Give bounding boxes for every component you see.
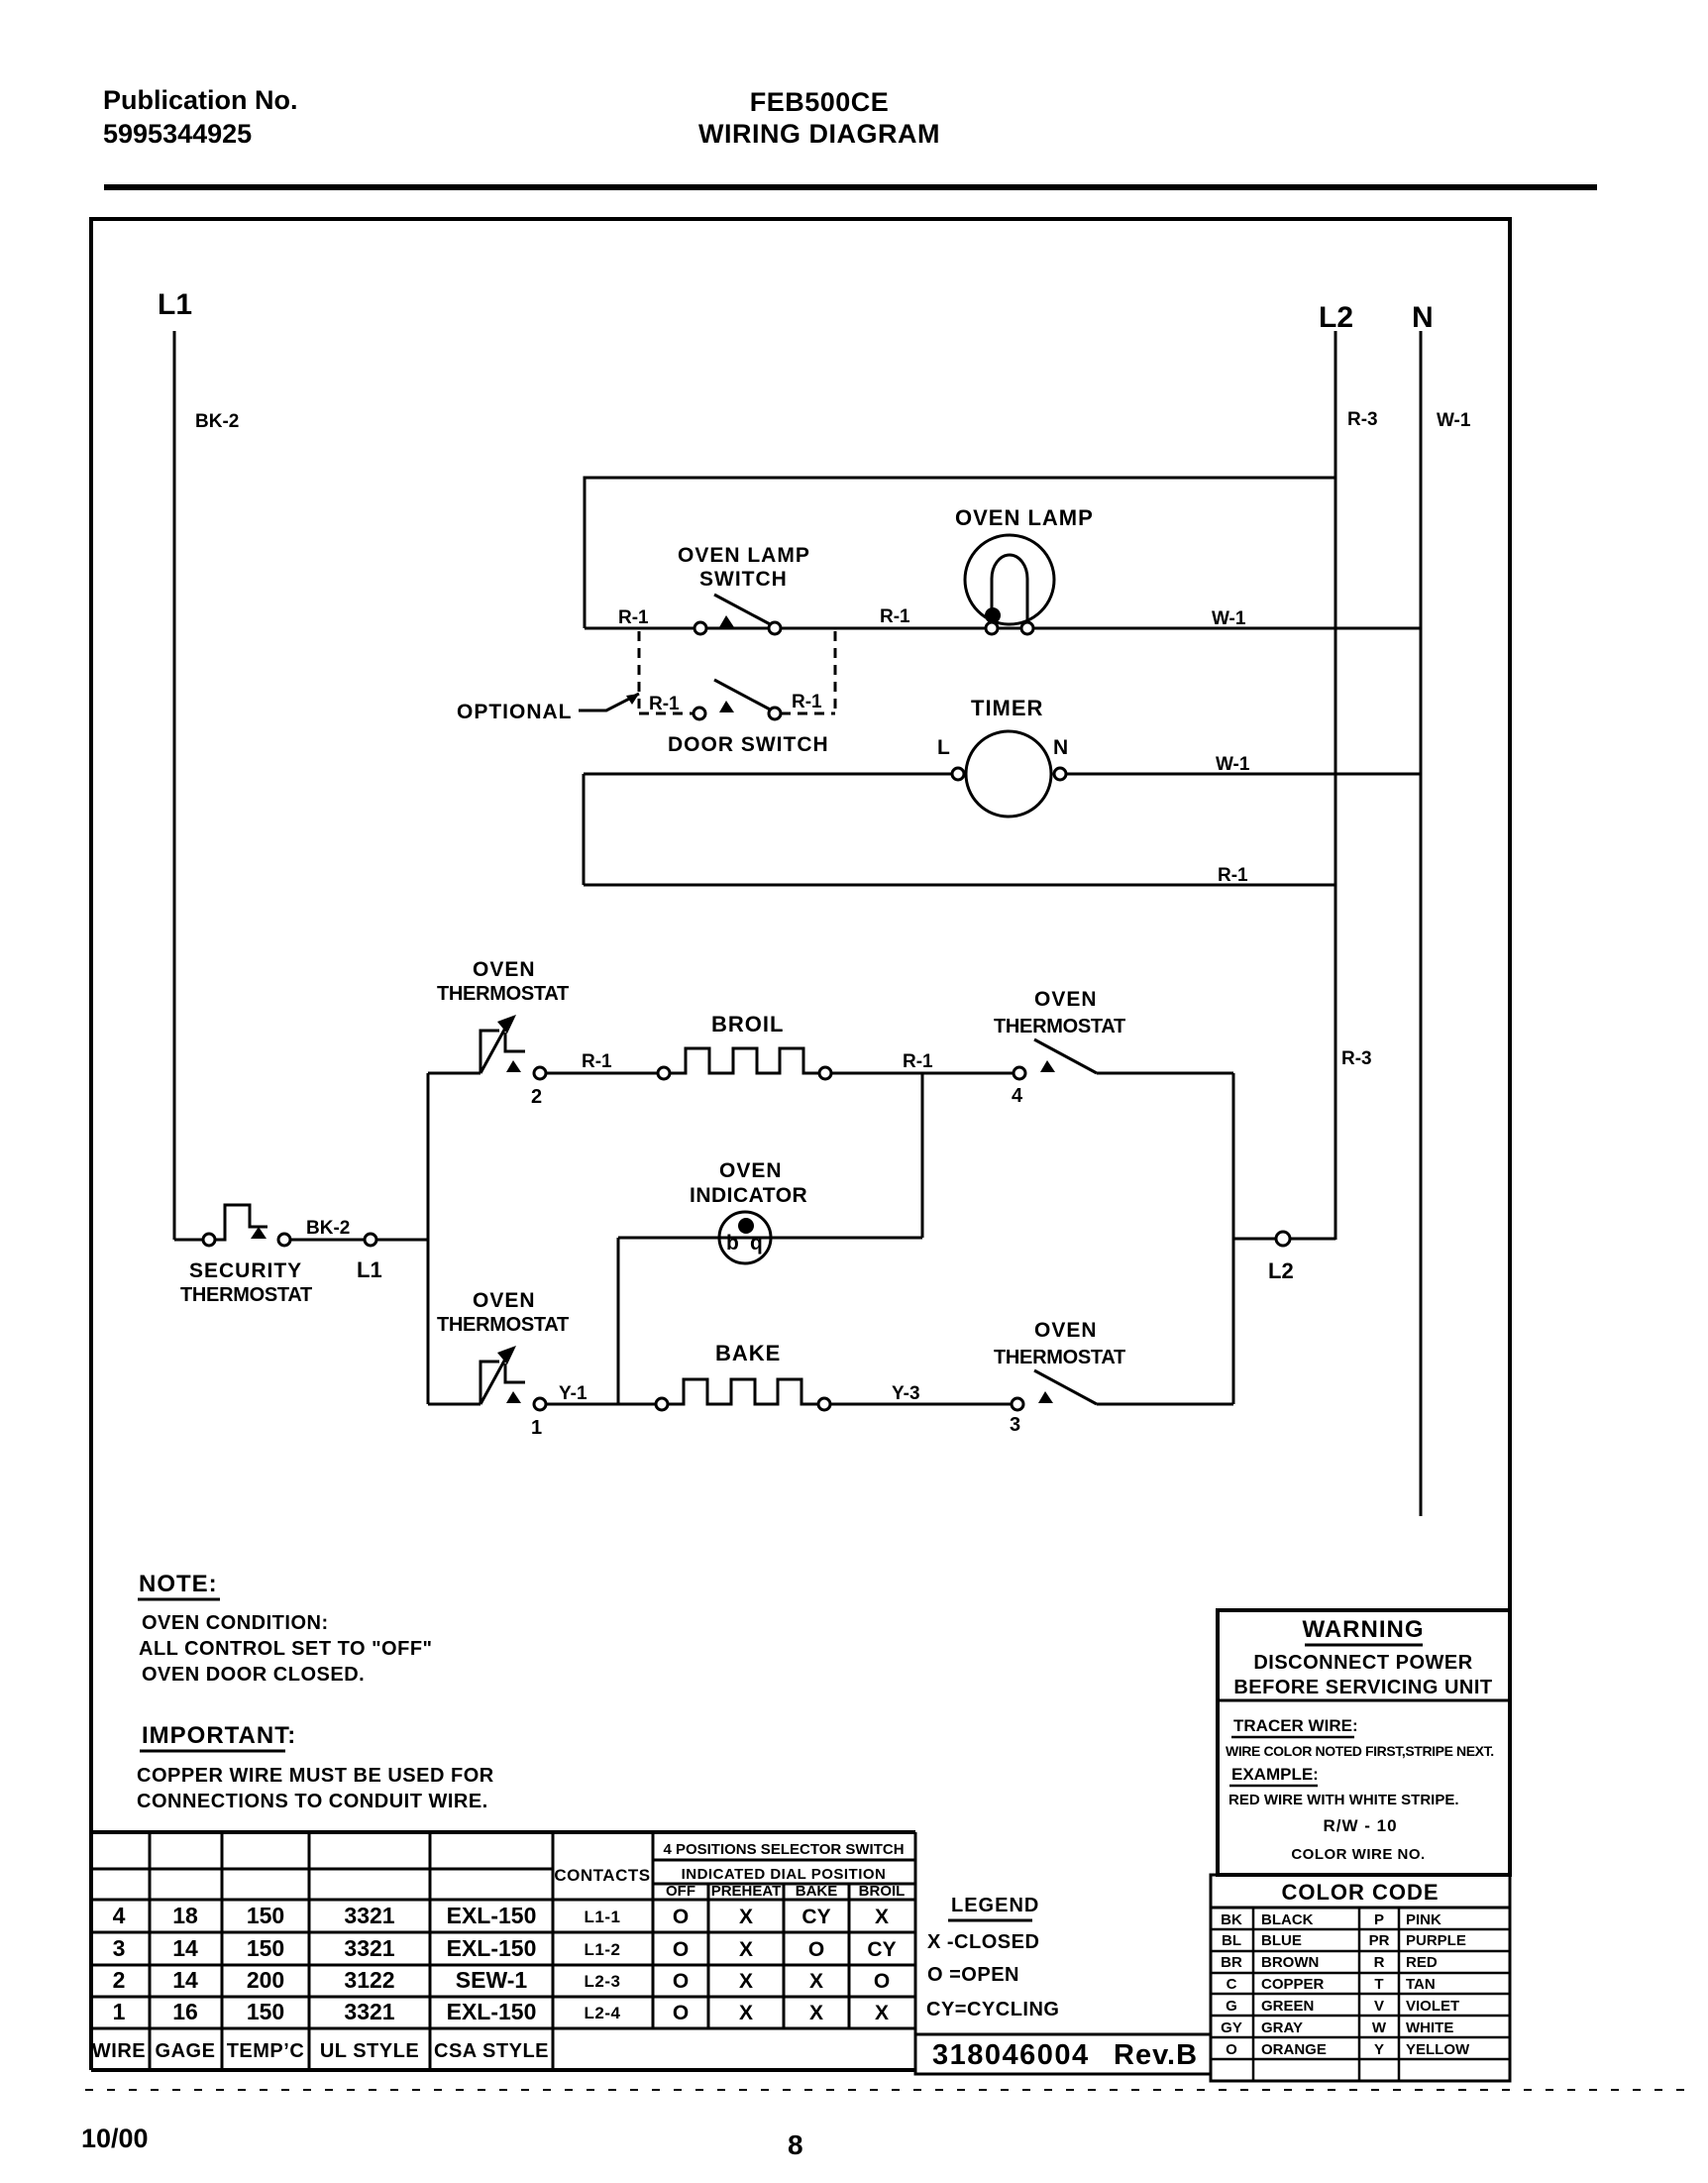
svg-text:L1: L1: [357, 1257, 382, 1282]
legend: [926, 1895, 1059, 2020]
bake element terminal right: [818, 1398, 830, 1410]
wire oven lamp row: [585, 627, 1421, 630]
svg-text:X: X: [809, 2002, 823, 2024]
important text: [137, 1765, 494, 1812]
svg-text:LEGEND: LEGEND: [951, 1895, 1039, 1916]
svg-text:COLOR CODE: COLOR CODE: [1281, 1880, 1439, 1905]
svg-text:3122: 3122: [344, 1967, 394, 1993]
svg-text:WIRE: WIRE: [92, 2040, 146, 2062]
svg-text:N: N: [1412, 301, 1434, 334]
footer dashed rule: [85, 2089, 1694, 2091]
svg-text:O: O: [808, 1938, 824, 1961]
wire thermostat 2 to broil: [546, 1072, 658, 1075]
wire timer loop bottom to L2: [584, 884, 1335, 887]
wire output bus (right): [1232, 1073, 1235, 1404]
svg-text:BROIL: BROIL: [859, 1883, 906, 1900]
svg-text:CONNECTIONS TO CONDUIT WIRE.: CONNECTIONS TO CONDUIT WIRE.: [137, 1791, 488, 1812]
table row wire 3: [113, 1935, 897, 1961]
svg-text:R-1: R-1: [792, 692, 822, 712]
svg-text:SECURITY: SECURITY: [189, 1259, 302, 1282]
wire L1 to security thermostat: [174, 1239, 203, 1242]
svg-text:BR: BR: [1221, 1954, 1242, 1971]
svg-text:14: 14: [172, 1935, 198, 1961]
oven thermostat 1 label: [437, 1289, 569, 1336]
svg-text:3: 3: [1010, 1414, 1020, 1436]
svg-text:W-1: W-1: [1437, 410, 1471, 431]
oven lamp: [965, 535, 1054, 634]
wire indicator row: [618, 1237, 922, 1240]
wire indicator to bake row: [617, 1238, 620, 1404]
svg-text:EXAMPLE:: EXAMPLE:: [1231, 1765, 1319, 1784]
svg-text:INDICATOR: INDICATOR: [690, 1184, 807, 1207]
wire L1 rail: [173, 331, 176, 1240]
svg-text:R-3: R-3: [1347, 409, 1378, 430]
svg-text:GREEN: GREEN: [1261, 1998, 1314, 2015]
svg-text:q: q: [750, 1232, 763, 1255]
optional label with leader: [457, 694, 639, 723]
svg-text:ORANGE: ORANGE: [1261, 2041, 1327, 2058]
diagram border frame: [91, 219, 1510, 2070]
part number box: [915, 2034, 1211, 2074]
svg-text:8: 8: [788, 2129, 803, 2160]
svg-text:R-1: R-1: [618, 607, 649, 628]
wire output bus to L2: [1233, 1238, 1335, 1241]
svg-text:X: X: [809, 1970, 823, 1993]
svg-text:X -CLOSED: X -CLOSED: [927, 1931, 1039, 1953]
wire node L1 to thermostat bus: [376, 1239, 428, 1242]
svg-text:L1-2: L1-2: [585, 1940, 621, 1959]
table column labels: [92, 2040, 549, 2062]
svg-text:CONTACTS: CONTACTS: [554, 1866, 650, 1885]
svg-text:BROWN: BROWN: [1261, 1954, 1319, 1971]
svg-text:TAN: TAN: [1406, 1976, 1436, 1993]
svg-text:C: C: [1227, 1976, 1237, 1993]
svg-text:4: 4: [113, 1903, 126, 1928]
svg-text:PREHEAT: PREHEAT: [711, 1883, 782, 1900]
svg-text:1: 1: [531, 1417, 542, 1439]
wire gauge and contacts table: [91, 1832, 915, 2070]
note text: [139, 1612, 433, 1686]
svg-text:SEW-1: SEW-1: [456, 1967, 528, 1993]
svg-text:THERMOSTAT: THERMOSTAT: [437, 1314, 569, 1336]
svg-text:ALL CONTROL SET TO "OFF": ALL CONTROL SET TO "OFF": [139, 1638, 433, 1660]
svg-text:150: 150: [247, 1999, 284, 2024]
svg-text:THERMOSTAT: THERMOSTAT: [437, 983, 569, 1005]
svg-text:EXL-150: EXL-150: [447, 1999, 537, 2024]
svg-text:318046004: 318046004: [932, 2039, 1090, 2071]
tracer wire heading: [1231, 1716, 1358, 1737]
warning box: [1218, 1610, 1510, 1875]
wire broil to thermostat 4: [831, 1072, 1014, 1075]
svg-text:X: X: [875, 2002, 889, 2024]
wire thermostat bus (left): [427, 1073, 430, 1404]
svg-text:WIRING DIAGRAM: WIRING DIAGRAM: [698, 119, 940, 149]
svg-text:W-1: W-1: [1216, 754, 1250, 775]
dial column heads: [666, 1883, 905, 1900]
svg-text:X: X: [739, 2002, 753, 2024]
svg-text:2: 2: [113, 1967, 126, 1993]
dashed link right: [834, 631, 837, 712]
svg-text:BLACK: BLACK: [1261, 1911, 1314, 1928]
svg-text:L1: L1: [158, 288, 192, 321]
wire timer loop left: [583, 774, 586, 885]
svg-text:O: O: [1226, 2041, 1237, 2058]
svg-text:BEFORE SERVICING UNIT: BEFORE SERVICING UNIT: [1233, 1677, 1492, 1698]
oven thermostat 3: [1012, 1370, 1097, 1410]
oven indicator: [719, 1212, 771, 1263]
svg-text:THERMOSTAT: THERMOSTAT: [180, 1284, 312, 1306]
warning heading: [1233, 1616, 1492, 1698]
svg-text:Rev.B: Rev.B: [1114, 2039, 1198, 2071]
svg-text:FEB500CE: FEB500CE: [750, 87, 890, 117]
svg-text:R-1: R-1: [582, 1051, 612, 1072]
svg-text:OVEN: OVEN: [473, 958, 536, 981]
svg-text:O: O: [673, 1906, 689, 1928]
svg-text:TIMER: TIMER: [971, 696, 1043, 720]
timer: [952, 731, 1066, 817]
wire thermostat 4 to output bus: [1097, 1072, 1233, 1075]
svg-text:BK-2: BK-2: [306, 1218, 350, 1239]
header: publication number: [103, 85, 298, 149]
svg-text:P: P: [1374, 1911, 1384, 1928]
svg-text:COPPER WIRE MUST BE USED FOR: COPPER WIRE MUST BE USED FOR: [137, 1765, 494, 1787]
important heading: [140, 1722, 296, 1751]
svg-text:G: G: [1226, 1998, 1237, 2015]
oven lamp switch: [694, 595, 781, 634]
svg-text:UL STYLE: UL STYLE: [320, 2040, 419, 2062]
svg-text:CSA STYLE: CSA STYLE: [434, 2040, 549, 2062]
svg-text:R-1: R-1: [903, 1051, 933, 1072]
security thermostat label: [180, 1259, 312, 1306]
svg-text:THERMOSTAT: THERMOSTAT: [994, 1016, 1125, 1037]
wire N rail: [1420, 331, 1423, 1516]
bake element terminal left: [656, 1398, 668, 1410]
wire timer row: [584, 773, 952, 776]
svg-text:YELLOW: YELLOW: [1406, 2041, 1470, 2058]
svg-text:X: X: [739, 1970, 753, 1993]
svg-text:IMPORTANT:: IMPORTANT:: [142, 1722, 296, 1749]
svg-text:BK: BK: [1221, 1911, 1242, 1928]
svg-text:3321: 3321: [344, 1999, 394, 2024]
svg-text:N: N: [1053, 736, 1068, 759]
svg-text:GAGE: GAGE: [156, 2040, 216, 2062]
table row wire 4: [113, 1903, 889, 1928]
svg-text:PINK: PINK: [1406, 1911, 1441, 1928]
node L1 terminal: [365, 1234, 376, 1246]
svg-text:X: X: [739, 1938, 753, 1961]
svg-text:R-1: R-1: [880, 606, 910, 627]
wire thermostat 3 to output bus: [1097, 1403, 1233, 1406]
wire thermostat 1 to bake: [546, 1403, 656, 1406]
oven thermostat 2: [480, 1015, 546, 1079]
svg-text:3321: 3321: [344, 1903, 394, 1928]
svg-text:WARNING: WARNING: [1303, 1616, 1425, 1643]
svg-text:L2: L2: [1319, 301, 1353, 334]
wire timer to N rail: [1066, 773, 1421, 776]
svg-text:OVEN LAMP: OVEN LAMP: [955, 505, 1094, 530]
svg-text:THERMOSTAT: THERMOSTAT: [994, 1347, 1125, 1368]
svg-text:WIRE COLOR NOTED FIRST,STRIPE: WIRE COLOR NOTED FIRST,STRIPE NEXT.: [1226, 1743, 1494, 1759]
security thermostat: [203, 1205, 290, 1246]
svg-text:BLUE: BLUE: [1261, 1932, 1302, 1949]
svg-text:BK-2: BK-2: [195, 411, 239, 432]
svg-text:R/W - 10: R/W - 10: [1323, 1816, 1397, 1835]
svg-text:R: R: [1374, 1954, 1385, 1971]
header: model and title: [698, 87, 940, 149]
svg-text:OVEN: OVEN: [719, 1159, 783, 1182]
svg-text:BAKE: BAKE: [715, 1341, 781, 1365]
example heading: [1229, 1765, 1319, 1786]
svg-text:3321: 3321: [344, 1935, 394, 1961]
wire bus to thermostat 1: [428, 1403, 480, 1406]
oven indicator label: [690, 1159, 807, 1207]
svg-text:DOOR SWITCH: DOOR SWITCH: [668, 733, 829, 756]
svg-text:CY: CY: [801, 1906, 830, 1928]
svg-text:O: O: [673, 1938, 689, 1961]
table row wire 2: [113, 1967, 891, 1993]
wire bus to thermostat 2: [428, 1072, 480, 1075]
svg-text:W: W: [1372, 2019, 1387, 2036]
svg-text:T: T: [1374, 1976, 1383, 1993]
dashed wire to door switch: [639, 712, 694, 715]
svg-text:OVEN: OVEN: [1034, 988, 1098, 1011]
oven thermostat 3 label: [994, 1319, 1125, 1368]
wire L2/R-3 rail: [1334, 331, 1337, 1240]
color code table: [1211, 1875, 1510, 2081]
svg-text:OVEN LAMP: OVEN LAMP: [678, 544, 810, 567]
svg-text:OPTIONAL: OPTIONAL: [457, 701, 573, 723]
broil element terminal right: [819, 1067, 831, 1079]
svg-text:PR: PR: [1369, 1932, 1390, 1949]
svg-text:L2: L2: [1268, 1258, 1294, 1283]
dashed wire from door switch: [781, 712, 835, 715]
svg-text:L1-1: L1-1: [585, 1908, 621, 1926]
svg-text:O =OPEN: O =OPEN: [927, 1964, 1019, 1986]
svg-text:TEMP’C: TEMP’C: [227, 2040, 305, 2062]
svg-text:4 POSITIONS SELECTOR SWITCH: 4 POSITIONS SELECTOR SWITCH: [663, 1841, 904, 1858]
svg-text:X: X: [739, 1906, 753, 1928]
svg-text:14: 14: [172, 1967, 198, 1993]
svg-text:L2-3: L2-3: [585, 1972, 621, 1991]
oven thermostat 4: [1014, 1039, 1097, 1079]
wire broil row to indicator: [921, 1073, 924, 1238]
svg-text:X: X: [875, 1906, 889, 1928]
svg-text:Y-1: Y-1: [559, 1383, 587, 1404]
svg-text:VIOLET: VIOLET: [1406, 1998, 1459, 2015]
svg-text:10/00: 10/00: [81, 2124, 149, 2153]
svg-text:O: O: [673, 2002, 689, 2024]
svg-text:BAKE: BAKE: [796, 1883, 838, 1900]
svg-text:INDICATED DIAL POSITION: INDICATED DIAL POSITION: [682, 1866, 887, 1883]
svg-text:BROIL: BROIL: [711, 1012, 784, 1037]
svg-text:CY: CY: [867, 1938, 896, 1961]
dashed link left: [638, 631, 641, 712]
svg-text:R-1: R-1: [1218, 865, 1248, 886]
svg-text:W-1: W-1: [1212, 608, 1246, 629]
svg-text:RED WIRE WITH WHITE STRIPE.: RED WIRE WITH WHITE STRIPE.: [1228, 1792, 1459, 1808]
svg-text:2: 2: [531, 1086, 542, 1108]
svg-text:Publication No.: Publication No.: [103, 85, 298, 115]
svg-text:O: O: [874, 1970, 890, 1993]
svg-text:150: 150: [247, 1935, 284, 1961]
svg-text:1: 1: [113, 1999, 126, 2024]
svg-text:O: O: [673, 1970, 689, 1993]
node L2 terminal: [1276, 1232, 1290, 1246]
svg-text:OVEN: OVEN: [473, 1289, 536, 1312]
broil element terminal left: [658, 1067, 670, 1079]
svg-text:OFF: OFF: [666, 1883, 695, 1900]
svg-text:PURPLE: PURPLE: [1406, 1932, 1466, 1949]
svg-text:3: 3: [113, 1935, 126, 1961]
svg-text:200: 200: [247, 1967, 284, 1993]
wire bake to thermostat 3: [830, 1403, 1012, 1406]
svg-text:SWITCH: SWITCH: [699, 568, 788, 591]
svg-text:DISCONNECT POWER: DISCONNECT POWER: [1253, 1652, 1472, 1674]
svg-text:GRAY: GRAY: [1261, 2019, 1303, 2036]
wire security to node L1: [290, 1239, 365, 1242]
svg-text:L: L: [937, 736, 950, 759]
broil element: [670, 1048, 819, 1073]
svg-text:Y-3: Y-3: [892, 1383, 920, 1404]
svg-text:BL: BL: [1222, 1932, 1241, 1949]
svg-text:V: V: [1374, 1998, 1384, 2015]
svg-text:Y: Y: [1374, 2041, 1384, 2058]
svg-text:150: 150: [247, 1903, 284, 1928]
svg-text:NOTE:: NOTE:: [139, 1571, 218, 1597]
bake element: [668, 1379, 818, 1404]
svg-text:RED: RED: [1406, 1954, 1438, 1971]
svg-text:EXL-150: EXL-150: [447, 1903, 537, 1928]
svg-text:L2-4: L2-4: [585, 2004, 621, 2022]
door switch: [694, 680, 781, 719]
svg-text:TRACER WIRE:: TRACER WIRE:: [1233, 1716, 1358, 1735]
oven lamp switch label: [678, 544, 810, 591]
svg-text:OVEN DOOR CLOSED.: OVEN DOOR CLOSED.: [142, 1664, 365, 1686]
svg-text:16: 16: [172, 1999, 198, 2024]
table row wire 1: [113, 1999, 889, 2024]
svg-text:WHITE: WHITE: [1406, 2019, 1453, 2036]
wire oven lamp loop top: [585, 478, 1335, 628]
svg-text:R-1: R-1: [649, 694, 680, 714]
warning divider: [1218, 1699, 1510, 1702]
svg-text:COPPER: COPPER: [1261, 1976, 1325, 1993]
oven thermostat 4 label: [994, 988, 1125, 1037]
svg-text:4: 4: [1012, 1085, 1023, 1107]
svg-text:5995344925: 5995344925: [103, 119, 252, 149]
header rule: [104, 184, 1597, 190]
svg-text:EXL-150: EXL-150: [447, 1935, 537, 1961]
svg-text:OVEN CONDITION:: OVEN CONDITION:: [142, 1612, 329, 1634]
note heading: [138, 1571, 220, 1599]
oven thermostat 1: [480, 1346, 546, 1410]
svg-text:18: 18: [172, 1903, 198, 1928]
svg-text:R-3: R-3: [1341, 1048, 1372, 1069]
oven thermostat 2 label: [437, 958, 569, 1005]
svg-text:b: b: [726, 1232, 739, 1255]
svg-text:OVEN: OVEN: [1034, 1319, 1098, 1342]
svg-text:GY: GY: [1221, 2019, 1242, 2036]
svg-text:CY=CYCLING: CY=CYCLING: [926, 1999, 1059, 2020]
svg-text:COLOR WIRE NO.: COLOR WIRE NO.: [1291, 1846, 1425, 1863]
